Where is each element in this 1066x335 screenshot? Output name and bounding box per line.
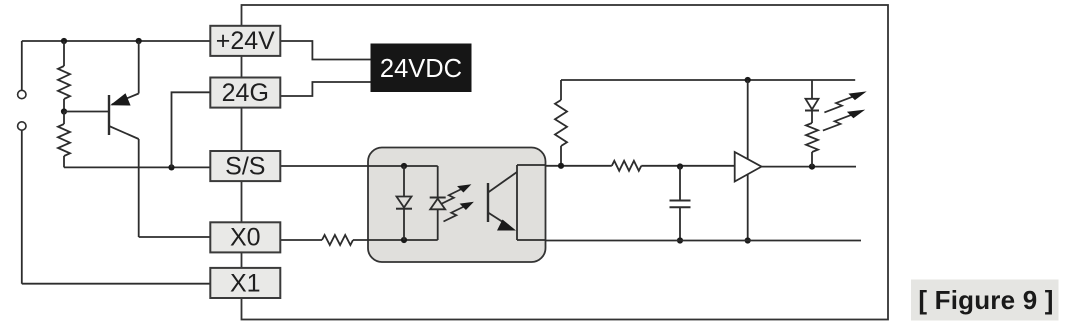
svg-text:S/S: S/S (225, 152, 265, 180)
svg-text:24VDC: 24VDC (380, 55, 462, 83)
svg-text:X1: X1 (230, 269, 261, 297)
svg-text:[ Figure 9 ]: [ Figure 9 ] (918, 285, 1053, 315)
svg-text:X0: X0 (230, 224, 261, 252)
svg-text:+24V: +24V (216, 27, 275, 55)
svg-text:24G: 24G (222, 79, 269, 107)
